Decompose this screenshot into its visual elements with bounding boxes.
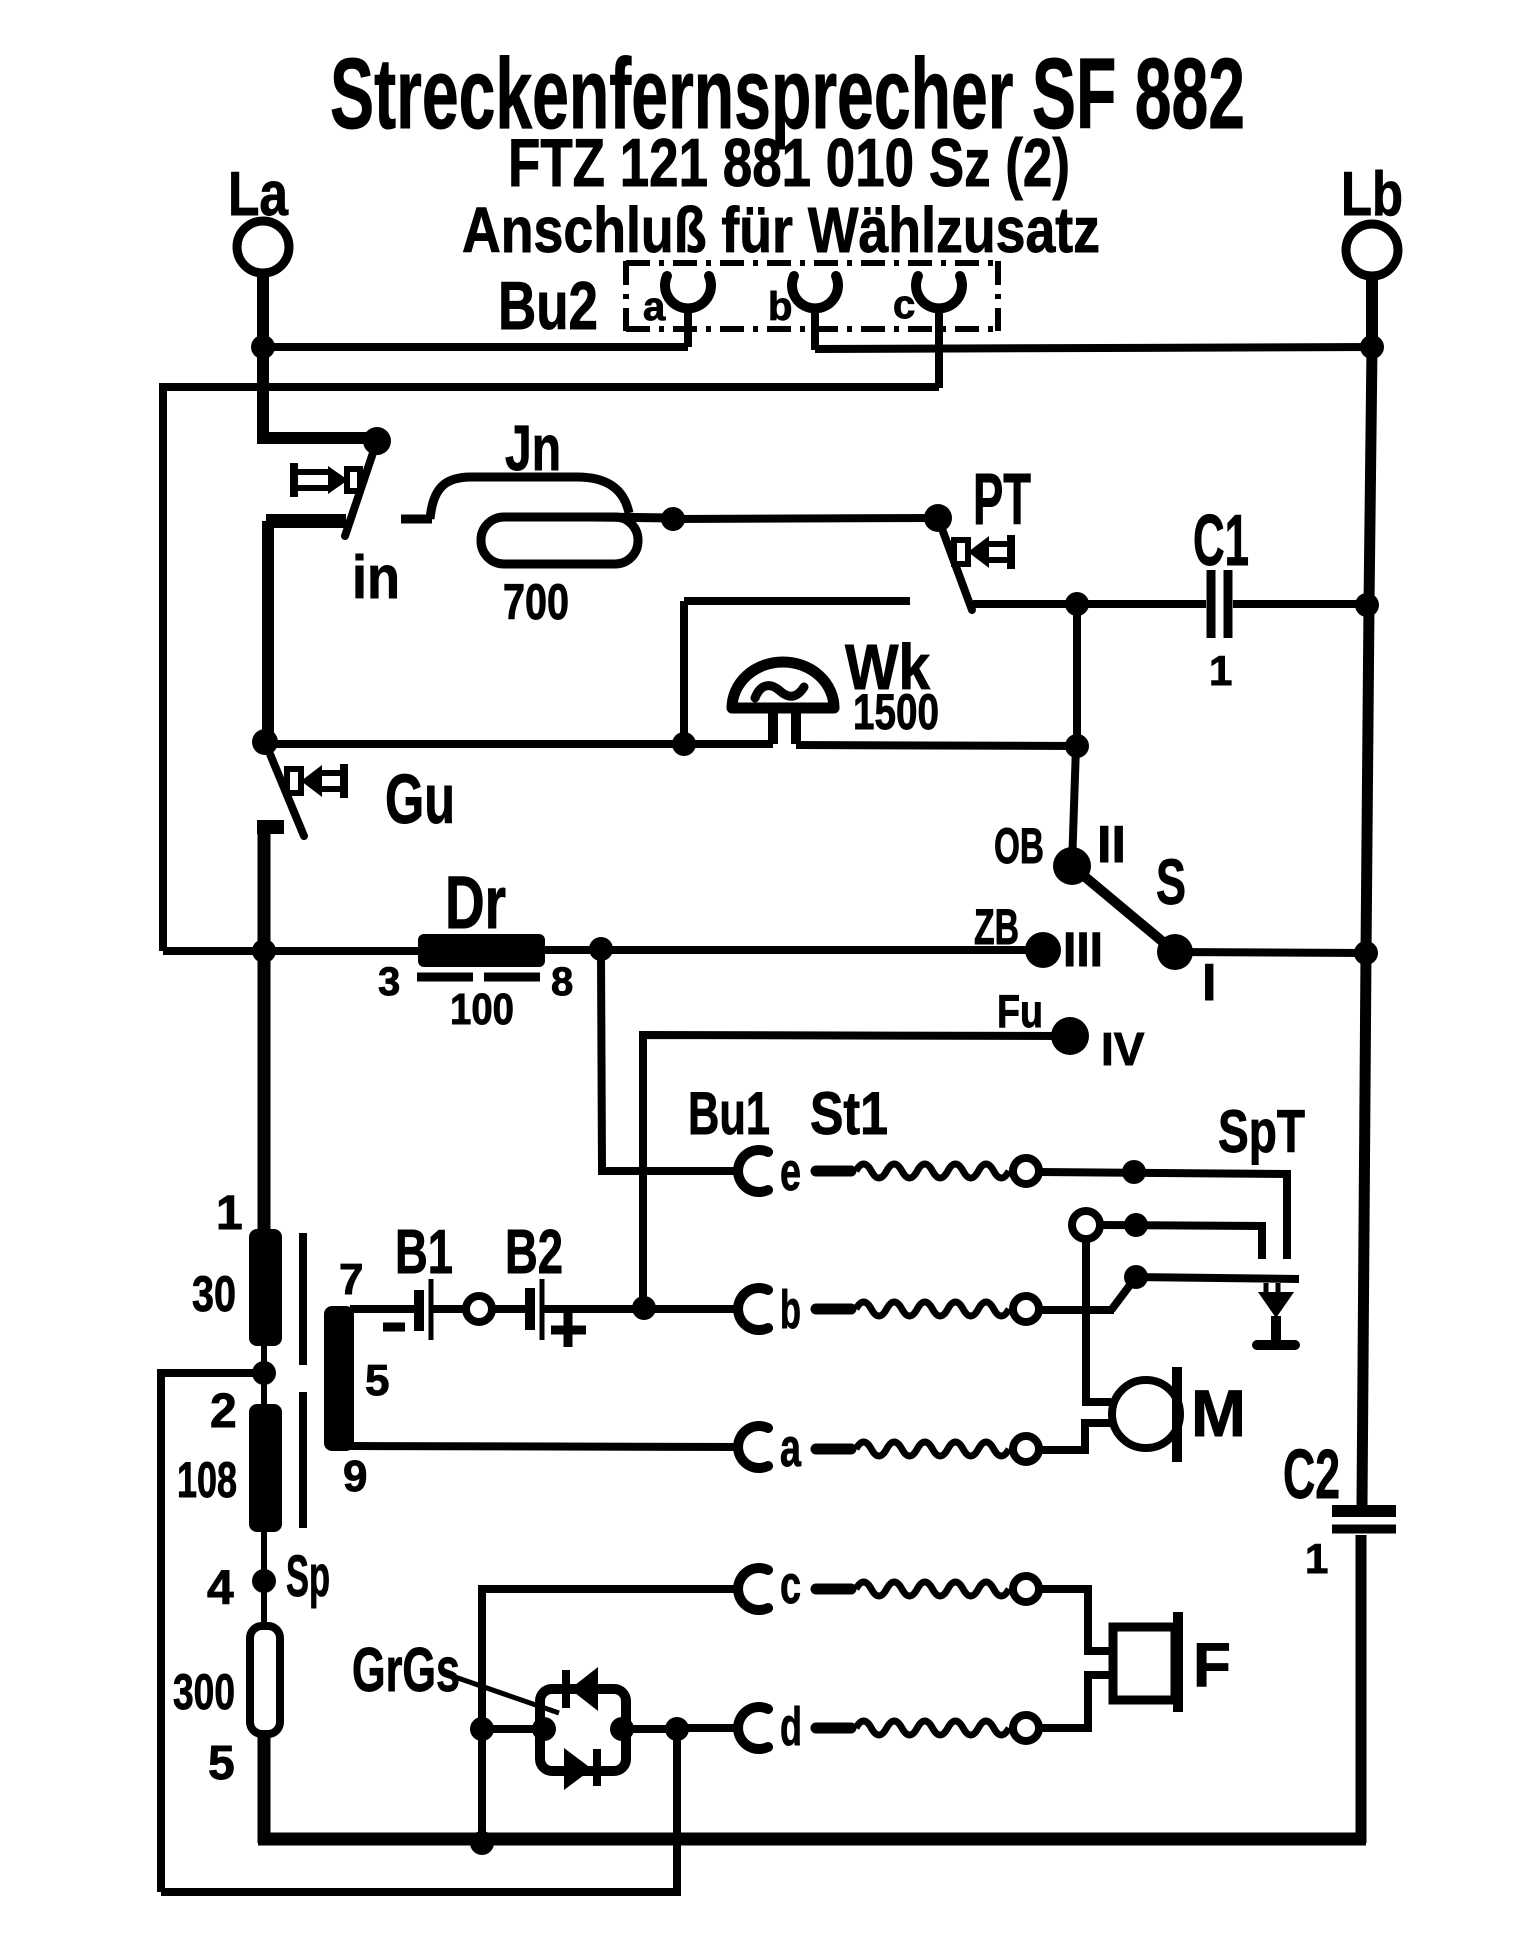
wire Jn to PT bbox=[673, 518, 938, 519]
wire plug a to M bbox=[1039, 1423, 1112, 1450]
junction Dr right / e branch bbox=[589, 937, 613, 961]
label GrGs bbox=[352, 1636, 460, 1705]
microphone M bbox=[1112, 1367, 1246, 1462]
svg-text:e: e bbox=[780, 1142, 801, 1202]
svg-text:100: 100 bbox=[450, 985, 514, 1034]
junction tap 2 bbox=[252, 1361, 276, 1385]
switch PT pivot junction bbox=[924, 504, 952, 532]
subtitle: Anschluss fuer Waehlzusatz bbox=[462, 194, 1100, 266]
svg-text:b: b bbox=[768, 285, 792, 329]
Dr pin 8 bbox=[551, 960, 573, 1004]
label PT bbox=[973, 460, 1031, 540]
transformer winding 30 bbox=[249, 1229, 282, 1346]
GrGs leader line bbox=[455, 1677, 559, 1713]
svg-text:9: 9 bbox=[343, 1452, 367, 1501]
svg-text:FTZ 121 881 010 Sz (2): FTZ 121 881 010 Sz (2) bbox=[508, 125, 1070, 201]
wire PT to C1 node bbox=[973, 600, 1077, 608]
wire plug b to SpT blade bbox=[1039, 1306, 1114, 1314]
svg-text:F: F bbox=[1193, 1631, 1231, 1700]
junction bridge right node bbox=[610, 1717, 634, 1741]
wire Bu2-b to Lb bbox=[815, 347, 1372, 349]
label C2 bbox=[1283, 1435, 1340, 1513]
svg-text:1: 1 bbox=[1209, 647, 1232, 694]
junction bridge left node bbox=[532, 1717, 556, 1741]
Bu1 jack a bbox=[738, 1418, 802, 1478]
connector Bu2 dash-dot frame bbox=[626, 261, 998, 331]
svg-text:30: 30 bbox=[192, 1266, 236, 1322]
transformer pin 4 bbox=[207, 1562, 234, 1615]
wire c branch riser bbox=[482, 1589, 742, 1845]
battery B2 label bbox=[505, 1218, 563, 1287]
svg-text:700: 700 bbox=[503, 574, 569, 630]
battery B2 bbox=[530, 1279, 586, 1347]
value 108 bbox=[177, 1452, 237, 1508]
label Bu1 bbox=[688, 1080, 770, 1147]
cord c (St1) bbox=[816, 1576, 1039, 1602]
wire La to switch in bbox=[263, 344, 371, 438]
wire winding108 to tap4 bbox=[261, 1532, 267, 1628]
switch SpT blade bbox=[1112, 1277, 1136, 1309]
cord b (St1) bbox=[816, 1296, 1039, 1322]
wire right bus Lb down to C2 bbox=[1362, 347, 1372, 1505]
svg-text:Bu1: Bu1 bbox=[688, 1080, 770, 1147]
terminal La bbox=[228, 160, 289, 347]
rectifier GrGs bridge bbox=[540, 1667, 626, 1790]
SpT upper plug circle bbox=[1072, 1211, 1100, 1239]
svg-text:3: 3 bbox=[378, 960, 400, 1004]
junction e row bbox=[1122, 1160, 1146, 1184]
wire transformer sec to B1 bbox=[350, 1305, 415, 1313]
label OB bbox=[994, 818, 1044, 874]
switch in actuation arrow bbox=[294, 463, 360, 497]
label Bu2 bbox=[498, 268, 598, 344]
contact III (ZB) bbox=[1025, 924, 1103, 977]
inductor Jn bbox=[401, 477, 672, 564]
transformer winding 300 bbox=[250, 1626, 280, 1734]
contact IV (Fu) bbox=[1051, 1017, 1145, 1075]
switch in pivot junction bbox=[363, 427, 391, 455]
wire Wk loop left bbox=[680, 601, 688, 744]
label Jn bbox=[505, 412, 561, 484]
switch Gu actuation arrow bbox=[287, 764, 344, 798]
value 700 bbox=[503, 574, 569, 630]
label Fu bbox=[997, 985, 1043, 1037]
svg-text:Dr: Dr bbox=[445, 861, 506, 944]
svg-text:1: 1 bbox=[1305, 1535, 1328, 1582]
contact II (OB) bbox=[1053, 816, 1126, 885]
junction Gu pivot bbox=[252, 729, 278, 755]
svg-text:a: a bbox=[643, 285, 666, 329]
svg-text:in: in bbox=[352, 544, 400, 611]
svg-text:1500: 1500 bbox=[853, 684, 939, 740]
junction Wk left bbox=[672, 732, 696, 756]
svg-text:Fu: Fu bbox=[997, 985, 1043, 1037]
Bu1 jack e bbox=[738, 1142, 801, 1202]
junction C1 right bus bbox=[1355, 593, 1379, 617]
svg-text:C2: C2 bbox=[1283, 1435, 1340, 1513]
battery B1 bbox=[383, 1279, 431, 1340]
wire SpT circle stem to M bbox=[1086, 1239, 1111, 1402]
svg-text:M: M bbox=[1191, 1376, 1246, 1450]
Dr winding dashes bbox=[417, 973, 540, 982]
svg-text:IV: IV bbox=[1101, 1023, 1145, 1075]
junction b node bbox=[632, 1296, 656, 1320]
svg-text:GrGs: GrGs bbox=[352, 1636, 460, 1705]
transformer core bbox=[299, 1233, 307, 1528]
svg-text:7: 7 bbox=[339, 1255, 363, 1304]
junction Wk right bbox=[1065, 734, 1089, 758]
wire plug to B2 bbox=[492, 1305, 526, 1313]
value 1500 bbox=[853, 684, 939, 740]
junction SpT lower bbox=[1124, 1265, 1148, 1289]
svg-text:II: II bbox=[1097, 816, 1126, 874]
svg-text:III: III bbox=[1063, 924, 1103, 977]
C1 value 1 bbox=[1209, 647, 1232, 694]
Bu1 jack c bbox=[738, 1555, 801, 1615]
svg-text:a: a bbox=[780, 1418, 802, 1478]
contact I (common) bbox=[1157, 934, 1216, 1012]
wire plug d to F bbox=[1039, 1675, 1113, 1728]
junction SpT upper bbox=[1124, 1213, 1148, 1237]
wire plug e to SpT bbox=[1039, 1172, 1287, 1259]
switch S blade bbox=[1072, 866, 1175, 952]
svg-text:300: 300 bbox=[173, 1664, 235, 1720]
Dr pin 3 bbox=[378, 960, 400, 1004]
ringer Wk bbox=[732, 662, 834, 744]
wire Wk bottom left segment bbox=[684, 740, 773, 748]
junction c riser bottom bbox=[470, 1831, 494, 1855]
wire contact I to bus bbox=[1175, 952, 1366, 953]
cord a (St1) bbox=[816, 1436, 1039, 1462]
Bu2 jack a bbox=[643, 276, 711, 347]
svg-text:c: c bbox=[893, 283, 915, 327]
wire La to Bu2-a bbox=[263, 343, 688, 351]
wire Bu2-c to left frame bbox=[163, 387, 939, 951]
wire C1 node to Wk right bbox=[1073, 604, 1081, 746]
capacitor C2 bbox=[1332, 1511, 1396, 1529]
cord d (St1) bbox=[816, 1715, 1039, 1741]
junction Jn out bbox=[661, 507, 685, 531]
wire B1 to plug bbox=[433, 1305, 466, 1313]
wire Fu to b-branch bbox=[643, 1035, 1070, 1307]
svg-text:PT: PT bbox=[973, 460, 1031, 540]
svg-text:St1: St1 bbox=[810, 1080, 888, 1147]
battery B1 label bbox=[395, 1218, 453, 1287]
junction S right bus bbox=[1354, 941, 1378, 965]
wire Dr-right down to jack e bbox=[601, 955, 742, 1171]
value 30 bbox=[192, 1266, 236, 1322]
Bu1 jack d bbox=[738, 1697, 802, 1757]
svg-text:d: d bbox=[780, 1697, 802, 1757]
wire Gu to Wk bbox=[265, 740, 684, 748]
wire PT fixed from Wk loop bbox=[684, 597, 910, 605]
wire d node to bottom rail bbox=[161, 1729, 677, 1892]
choke Dr bbox=[418, 934, 545, 967]
switch Gu blade bbox=[265, 742, 304, 836]
svg-text:Jn: Jn bbox=[505, 412, 561, 484]
wire winding30 to tap2 bbox=[261, 1346, 267, 1404]
wire SpT upper row bbox=[1100, 1225, 1262, 1259]
svg-text:I: I bbox=[1202, 954, 1216, 1012]
svg-text:Anschluß für Wählzusatz: Anschluß für Wählzusatz bbox=[462, 194, 1100, 266]
svg-text:Bu2: Bu2 bbox=[498, 268, 598, 344]
key SpT button symbol bbox=[1257, 1283, 1295, 1345]
transformer pin 1 bbox=[216, 1187, 243, 1240]
receiver F bbox=[1113, 1612, 1231, 1712]
switch in fixed contact bbox=[266, 521, 346, 744]
transformer winding 108 bbox=[249, 1404, 282, 1532]
capacitor C1 bbox=[1077, 570, 1366, 638]
wire bridge right to d node bbox=[622, 1725, 677, 1733]
wire plug c to F bbox=[1039, 1589, 1113, 1651]
transformer pin 5 bbox=[208, 1737, 235, 1790]
switch PT actuation arrow bbox=[954, 535, 1011, 569]
junction d node bbox=[665, 1717, 689, 1741]
svg-text:C1: C1 bbox=[1193, 501, 1249, 581]
label Dr bbox=[445, 861, 506, 944]
switch Gu fixed contact bbox=[257, 827, 284, 1232]
switch PT blade bbox=[938, 518, 972, 610]
wire d node to jack d bbox=[677, 1724, 742, 1732]
label Sp bbox=[286, 1544, 330, 1609]
Bu1 jack b bbox=[738, 1280, 801, 1340]
wire Dr to ZB bbox=[545, 946, 1043, 954]
junction Lb node bbox=[1360, 335, 1384, 359]
label in bbox=[352, 544, 400, 611]
svg-text:5: 5 bbox=[365, 1356, 389, 1405]
svg-text:B2: B2 bbox=[505, 1218, 563, 1287]
wire Wk right to OB contact bbox=[1072, 746, 1076, 866]
wire frame to Dr bbox=[163, 947, 418, 955]
wire right bus C2 down to bottom bbox=[1356, 1535, 1367, 1843]
svg-text:5: 5 bbox=[208, 1737, 235, 1790]
transformer pin 2 bbox=[210, 1385, 237, 1438]
svg-text:108: 108 bbox=[177, 1452, 237, 1508]
value 300 bbox=[173, 1664, 235, 1720]
transformer secondary winding bbox=[324, 1306, 354, 1451]
svg-text:Lb: Lb bbox=[1341, 160, 1403, 229]
svg-text:OB: OB bbox=[994, 818, 1044, 874]
wire B2 to jack b bbox=[544, 1305, 742, 1313]
svg-text:Sp: Sp bbox=[286, 1544, 330, 1609]
junction C1 node bbox=[1065, 592, 1089, 616]
svg-text:c: c bbox=[780, 1555, 801, 1615]
svg-text:b: b bbox=[780, 1280, 801, 1340]
label Wk bbox=[845, 631, 930, 703]
terminal Lb bbox=[1341, 160, 1403, 346]
svg-text:4: 4 bbox=[207, 1562, 234, 1615]
wire bottom bus bbox=[258, 1833, 1366, 1846]
plug circle between B1 B2 bbox=[466, 1296, 492, 1322]
transformer pin 9 bbox=[343, 1452, 367, 1501]
label SpT bbox=[1218, 1098, 1305, 1165]
svg-text:S: S bbox=[1156, 846, 1186, 918]
wire winding300 to bottom bus bbox=[258, 1734, 271, 1843]
cord e (St1) bbox=[816, 1158, 1039, 1184]
junction tap 4 (Sp) bbox=[252, 1569, 276, 1593]
Bu2 jack b bbox=[768, 276, 838, 350]
wire SpT lower row bbox=[1136, 1277, 1299, 1279]
label ZB bbox=[974, 899, 1019, 955]
label Gu bbox=[385, 760, 455, 838]
wire to bridge left bbox=[482, 1725, 544, 1733]
label S bbox=[1156, 846, 1186, 918]
switch in blade bbox=[345, 441, 377, 536]
C2 value 1 bbox=[1305, 1535, 1328, 1582]
svg-text:1: 1 bbox=[216, 1187, 243, 1240]
Bu2 jack c bbox=[893, 276, 962, 388]
label C1 bbox=[1193, 501, 1249, 581]
svg-text:Gu: Gu bbox=[385, 760, 455, 838]
svg-text:SpT: SpT bbox=[1218, 1098, 1305, 1165]
svg-text:B1: B1 bbox=[395, 1218, 453, 1287]
label St1 bbox=[810, 1080, 888, 1147]
svg-text:8: 8 bbox=[551, 960, 573, 1004]
wire tap2 to left frame bbox=[161, 1373, 264, 1892]
transformer sec pin 5 bbox=[365, 1356, 389, 1405]
transformer pin 7 bbox=[339, 1255, 363, 1304]
junction Dr left bbox=[252, 939, 276, 963]
svg-text:ZB: ZB bbox=[974, 899, 1019, 955]
wire transformer sec to jack a bbox=[350, 1446, 742, 1447]
wire Wk bottom right segment bbox=[796, 745, 1077, 746]
junction bridge left feed bbox=[470, 1717, 494, 1741]
subtitle: FTZ 121 881 010 Sz (2) bbox=[508, 125, 1070, 201]
Dr value 100 bbox=[450, 985, 514, 1034]
junction La node bbox=[251, 335, 275, 359]
svg-text:2: 2 bbox=[210, 1385, 237, 1438]
title: Streckenfernsprecher SF 882 bbox=[330, 38, 1245, 150]
